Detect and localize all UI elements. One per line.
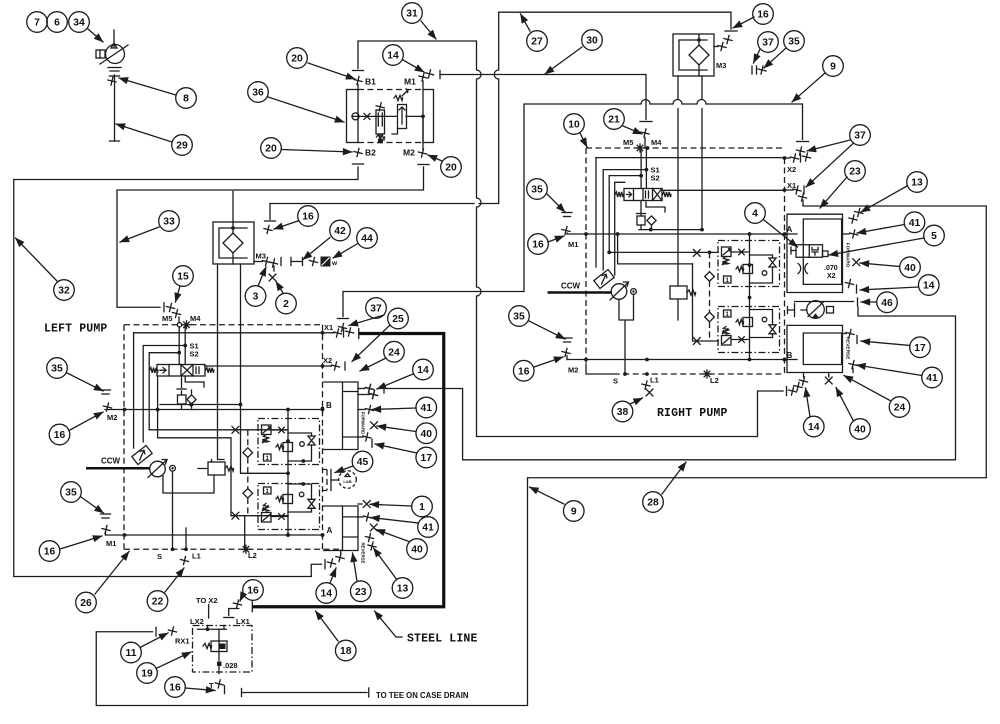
svg-text:4: 4 <box>752 209 758 220</box>
svg-text:L1: L1 <box>650 376 659 385</box>
svg-text:40: 40 <box>421 429 433 440</box>
svg-text:M2: M2 <box>568 366 578 375</box>
svg-text:15: 15 <box>177 272 189 283</box>
svg-text:44: 44 <box>361 234 373 245</box>
svg-text:14: 14 <box>417 365 429 376</box>
svg-text:16: 16 <box>532 240 544 251</box>
svg-text:35: 35 <box>788 37 800 48</box>
svg-text:24: 24 <box>388 347 400 358</box>
svg-text:M3: M3 <box>256 252 266 261</box>
svg-text:M2: M2 <box>107 413 117 422</box>
svg-text:16: 16 <box>518 366 530 377</box>
svg-text:16: 16 <box>302 212 314 223</box>
svg-text:41: 41 <box>909 218 921 229</box>
svg-text:M4: M4 <box>651 138 662 147</box>
svg-text:1: 1 <box>419 502 425 513</box>
svg-text:41: 41 <box>422 523 434 534</box>
svg-text:42: 42 <box>334 226 346 237</box>
svg-text:37: 37 <box>854 131 866 142</box>
svg-text:37: 37 <box>762 38 774 49</box>
svg-text:B2: B2 <box>365 148 376 158</box>
svg-text:30: 30 <box>586 36 598 47</box>
svg-text:M4: M4 <box>190 314 201 323</box>
svg-text:13: 13 <box>911 178 923 189</box>
svg-text:TO X2: TO X2 <box>196 596 218 605</box>
svg-text:27: 27 <box>531 37 543 48</box>
svg-text:11: 11 <box>126 648 137 659</box>
svg-text:35: 35 <box>531 185 543 196</box>
svg-text:X1: X1 <box>324 323 333 332</box>
svg-text:REVERSE: REVERSE <box>845 337 851 361</box>
svg-text:45: 45 <box>357 457 369 468</box>
svg-text:41: 41 <box>421 403 433 414</box>
svg-text:.028: .028 <box>223 661 238 670</box>
svg-text:S: S <box>157 552 162 561</box>
svg-text:X2: X2 <box>323 356 332 365</box>
svg-text:X1: X1 <box>787 181 796 190</box>
svg-text:M3: M3 <box>716 61 726 70</box>
svg-text:20: 20 <box>291 54 303 65</box>
svg-text:S2: S2 <box>190 350 199 359</box>
svg-text:17: 17 <box>914 343 926 354</box>
svg-text:31: 31 <box>406 9 418 20</box>
svg-text:CCW: CCW <box>101 457 121 466</box>
svg-text:36: 36 <box>252 88 264 99</box>
svg-text:22: 22 <box>152 597 164 608</box>
svg-text:w: w <box>331 260 338 267</box>
svg-text:24: 24 <box>894 403 906 414</box>
svg-text:6: 6 <box>54 18 60 29</box>
svg-text:RIGHT PUMP: RIGHT PUMP <box>657 407 728 420</box>
svg-text:25: 25 <box>392 314 404 325</box>
svg-text:14: 14 <box>321 589 333 600</box>
svg-text:35: 35 <box>513 312 525 323</box>
svg-text:TO TEE ON CASE DRAIN: TO TEE ON CASE DRAIN <box>376 691 469 700</box>
svg-text:FORWARD: FORWARD <box>361 412 366 435</box>
svg-text:STEEL LINE: STEEL LINE <box>407 633 478 646</box>
svg-text:28: 28 <box>647 498 659 509</box>
svg-text:13: 13 <box>397 584 409 595</box>
svg-text:L1: L1 <box>192 552 201 561</box>
svg-text:29: 29 <box>176 141 188 152</box>
svg-text:.070: .070 <box>824 265 838 272</box>
svg-text:16: 16 <box>757 10 769 21</box>
svg-text:LX1: LX1 <box>236 617 250 626</box>
svg-text:14: 14 <box>923 281 935 292</box>
svg-text:40: 40 <box>904 263 916 274</box>
svg-text:A: A <box>327 526 333 535</box>
svg-text:LAB: LAB <box>343 479 351 484</box>
svg-text:LEFT PUMP: LEFT PUMP <box>44 323 107 336</box>
svg-text:26: 26 <box>80 598 92 609</box>
svg-text:M1: M1 <box>404 77 416 87</box>
svg-text:46: 46 <box>881 298 893 309</box>
svg-text:X2: X2 <box>787 165 796 174</box>
svg-text:37: 37 <box>370 304 382 315</box>
svg-text:35: 35 <box>51 364 63 375</box>
svg-text:B1: B1 <box>365 77 376 87</box>
svg-text:20: 20 <box>445 163 457 174</box>
svg-text:M1: M1 <box>568 240 578 249</box>
svg-text:17: 17 <box>421 453 433 464</box>
svg-text:B: B <box>326 401 332 410</box>
svg-text:19: 19 <box>141 669 153 680</box>
svg-text:7: 7 <box>34 18 40 29</box>
svg-text:16: 16 <box>247 586 259 597</box>
svg-text:M5: M5 <box>623 138 633 147</box>
svg-text:M1: M1 <box>106 539 116 548</box>
svg-text:16: 16 <box>44 547 56 558</box>
svg-text:10: 10 <box>568 120 580 131</box>
svg-text:5: 5 <box>931 231 937 242</box>
svg-text:34: 34 <box>73 18 85 29</box>
svg-text:8: 8 <box>183 94 189 105</box>
svg-text:16: 16 <box>169 683 181 694</box>
svg-text:S: S <box>613 377 618 386</box>
svg-text:33: 33 <box>163 217 175 228</box>
svg-text:23: 23 <box>355 587 367 598</box>
svg-text:14: 14 <box>387 51 399 62</box>
svg-text:X2: X2 <box>827 273 836 280</box>
svg-text:M5: M5 <box>162 314 172 323</box>
svg-text:38: 38 <box>617 407 629 418</box>
svg-text:M2: M2 <box>403 148 415 158</box>
svg-text:T: T <box>209 681 214 690</box>
svg-text:40: 40 <box>411 545 423 556</box>
svg-text:3: 3 <box>253 292 259 303</box>
svg-text:32: 32 <box>58 286 70 297</box>
svg-text:RX1: RX1 <box>175 637 190 646</box>
svg-text:LX2: LX2 <box>190 617 204 626</box>
svg-text:14: 14 <box>808 422 820 433</box>
svg-text:L2: L2 <box>710 376 719 385</box>
svg-text:23: 23 <box>849 167 861 178</box>
svg-text:40: 40 <box>854 425 866 436</box>
svg-text:16: 16 <box>54 430 66 441</box>
svg-text:CCW: CCW <box>561 282 581 291</box>
svg-text:18: 18 <box>340 646 352 657</box>
svg-text:9: 9 <box>571 507 577 518</box>
svg-text:20: 20 <box>265 144 277 155</box>
svg-text:21: 21 <box>608 115 620 126</box>
svg-text:FORWARD: FORWARD <box>845 243 851 268</box>
svg-text:41: 41 <box>926 373 938 384</box>
svg-text:2: 2 <box>283 299 289 310</box>
svg-text:35: 35 <box>65 488 77 499</box>
svg-text:S2: S2 <box>651 174 660 183</box>
svg-text:REVERSE: REVERSE <box>361 543 366 564</box>
svg-text:9: 9 <box>830 62 836 73</box>
